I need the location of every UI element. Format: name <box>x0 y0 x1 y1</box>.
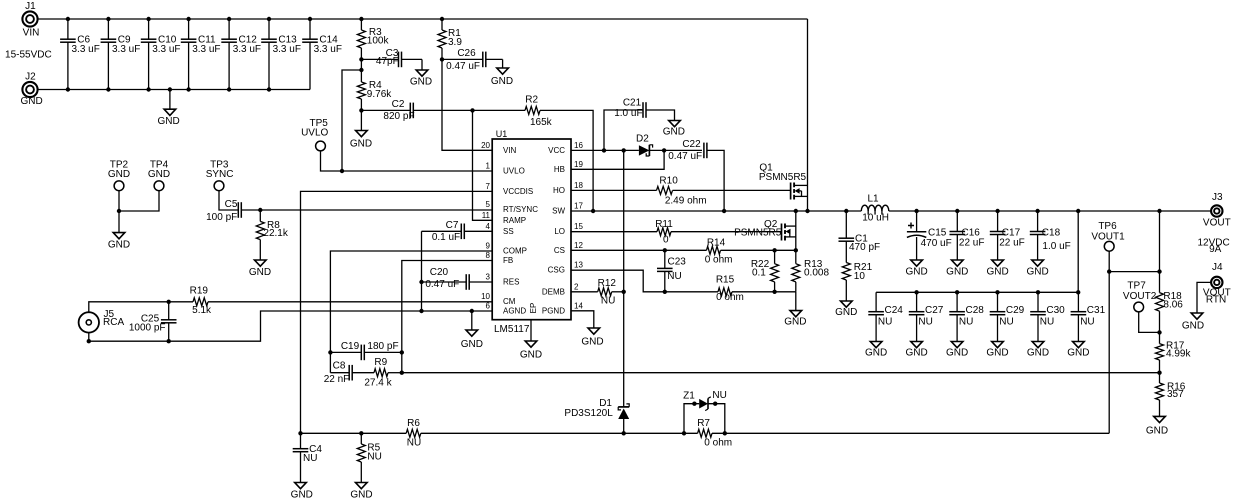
svg-text:GND: GND <box>20 96 42 107</box>
resistor R9 27.4 k <box>364 357 401 388</box>
capacitor C10 3.3 uF <box>141 19 181 90</box>
capacitor C15 470 uF polarized <box>907 211 952 260</box>
svg-text:22 nF: 22 nF <box>324 374 350 385</box>
test point TP5 UVLO <box>301 118 492 173</box>
U1 pin 20 VIN <box>481 141 516 155</box>
svg-text:9.76k: 9.76k <box>367 89 392 100</box>
resistor R17 4.99k <box>1156 332 1192 375</box>
svg-text:7: 7 <box>486 182 491 191</box>
svg-text:GND: GND <box>663 126 685 137</box>
svg-text:19: 19 <box>574 160 583 169</box>
svg-text:CS: CS <box>554 246 565 255</box>
svg-text:NU: NU <box>367 452 381 463</box>
capacitor C22 0.47 uF <box>668 139 724 211</box>
resistor R11 0 <box>571 219 782 246</box>
ground C17 <box>986 260 1008 278</box>
svg-text:470 pF: 470 pF <box>849 242 880 253</box>
zener Z1 NU <box>683 390 727 433</box>
svg-text:GND: GND <box>986 348 1008 359</box>
ground CSG <box>784 292 806 328</box>
svg-text:UVLO: UVLO <box>503 167 525 176</box>
svg-text:9: 9 <box>486 242 491 251</box>
svg-text:J4: J4 <box>1212 262 1223 273</box>
svg-text:HO: HO <box>553 186 565 195</box>
svg-text:GND: GND <box>581 337 603 348</box>
svg-text:Z1: Z1 <box>683 390 695 401</box>
resistor R7 0 ohm <box>697 418 732 448</box>
svg-text:2.49 ohm: 2.49 ohm <box>665 196 707 207</box>
svg-text:J2: J2 <box>25 72 36 83</box>
svg-text:R12: R12 <box>598 278 617 289</box>
resistor R22 0.1 <box>751 250 779 291</box>
diode D1 PD3S120L schottky <box>564 398 629 433</box>
svg-text:8.06: 8.06 <box>1163 300 1183 311</box>
svg-text:357: 357 <box>1167 389 1184 400</box>
capacitor C13 3.3 uF <box>261 19 301 90</box>
ground PGND pin 14 <box>571 311 604 348</box>
capacitor C2 820 pF <box>359 99 414 122</box>
wire HB to pin 19 <box>571 150 664 169</box>
svg-text:D2: D2 <box>636 134 649 145</box>
ground C24 <box>865 342 887 359</box>
ground C3 <box>410 59 432 87</box>
transistor Q1 PSMN5R5 <box>759 163 808 200</box>
capacitor C21 1.0 uF <box>604 98 675 151</box>
U1 pin 16 VCC <box>548 141 583 155</box>
svg-text:470 uF: 470 uF <box>921 238 952 249</box>
wire VCC pin 16 net <box>571 148 639 152</box>
svg-text:3.3 uF: 3.3 uF <box>112 44 140 55</box>
svg-text:20: 20 <box>481 141 490 150</box>
svg-text:0 ohm: 0 ohm <box>716 292 744 303</box>
svg-text:1: 1 <box>486 162 491 171</box>
svg-text:GND: GND <box>461 339 483 350</box>
wire NU cap row rail <box>876 290 1080 294</box>
svg-text:22.1k: 22.1k <box>263 228 288 239</box>
connector J4 VOUT RTN <box>1197 262 1231 313</box>
svg-text:3.9: 3.9 <box>448 37 462 48</box>
svg-text:47pF: 47pF <box>376 56 399 67</box>
ground R8 <box>249 260 271 278</box>
wire GND bottom rail <box>37 89 310 91</box>
svg-text:3.3 uF: 3.3 uF <box>273 44 301 55</box>
svg-text:GND: GND <box>520 350 542 361</box>
svg-text:SW: SW <box>552 207 565 216</box>
svg-text:C5: C5 <box>225 199 238 210</box>
resistor R13 0.008 <box>792 250 830 291</box>
svg-text:LO: LO <box>554 227 565 236</box>
svg-text:C2: C2 <box>392 99 405 110</box>
ground R5 <box>350 483 372 500</box>
svg-text:TP7: TP7 <box>1127 281 1146 292</box>
U1 pin 4 SS <box>486 222 514 236</box>
wire VIN pin net <box>440 57 492 150</box>
svg-text:VCC: VCC <box>548 146 565 155</box>
wire FB pin 8 net <box>400 261 493 375</box>
wire FB feedback line <box>402 372 1160 374</box>
svg-text:5.1k: 5.1k <box>192 305 212 316</box>
ground R16 <box>1146 416 1168 436</box>
ground C31 <box>1067 342 1089 359</box>
svg-text:C27: C27 <box>925 305 944 316</box>
ground J4 <box>1182 313 1204 331</box>
ground C18 <box>1026 260 1048 278</box>
svg-text:3.3 uF: 3.3 uF <box>72 44 100 55</box>
svg-text:R6: R6 <box>407 418 420 429</box>
svg-text:17: 17 <box>574 202 583 211</box>
svg-text:22 uF: 22 uF <box>959 237 985 248</box>
svg-text:GND: GND <box>905 267 927 278</box>
svg-text:9A: 9A <box>1209 244 1222 255</box>
svg-text:GND: GND <box>148 169 170 180</box>
svg-text:NU: NU <box>999 317 1013 328</box>
resistor R10 2.49 ohm <box>571 176 791 207</box>
wire UVLO from divider to pin 1 <box>342 70 361 171</box>
svg-text:12: 12 <box>574 241 583 250</box>
svg-text:NU: NU <box>1040 317 1054 328</box>
U1 pin 14 PGND <box>542 301 584 315</box>
wire TP6 to divider <box>1109 269 1162 273</box>
svg-text:VIN: VIN <box>503 146 517 155</box>
svg-text:C24: C24 <box>885 305 904 316</box>
U1 pin 10 CM <box>481 292 516 306</box>
U1 pin 8 FB <box>486 251 514 265</box>
U1 pin 12 CS <box>554 241 584 255</box>
connector J5 RCA <box>79 309 125 332</box>
svg-text:0.1: 0.1 <box>752 268 766 279</box>
U1 exposed pad EP <box>529 303 538 314</box>
svg-text:NU: NU <box>1080 317 1094 328</box>
svg-text:C15: C15 <box>928 227 947 238</box>
svg-text:C30: C30 <box>1046 305 1065 316</box>
capacitor C7 0.1 uF <box>422 220 493 243</box>
svg-text:C31: C31 <box>1087 305 1106 316</box>
ground R21 <box>835 301 857 318</box>
svg-text:C7: C7 <box>446 220 459 231</box>
inductor L1 10 uH <box>861 193 889 223</box>
wire J5 to R19 CM line <box>89 300 193 313</box>
svg-text:10: 10 <box>481 292 490 301</box>
svg-text:GND: GND <box>350 139 372 150</box>
capacitor C14 3.3 uF <box>302 19 342 90</box>
label 15-55VDC <box>5 50 52 61</box>
capacitor C29 NU <box>990 292 1025 341</box>
svg-text:NU: NU <box>303 453 317 464</box>
svg-text:820 pF: 820 pF <box>383 111 414 122</box>
test point TP4 GND <box>119 160 170 211</box>
svg-text:J1: J1 <box>25 1 36 12</box>
svg-text:NU: NU <box>878 317 892 328</box>
svg-text:C20: C20 <box>430 267 449 278</box>
capacitor C20 0.47 uF <box>422 267 493 290</box>
svg-text:0 ohm: 0 ohm <box>705 255 733 266</box>
connector J3 VOUT <box>1203 192 1231 228</box>
svg-text:GND: GND <box>1067 348 1089 359</box>
svg-text:DEMB: DEMB <box>542 287 565 296</box>
svg-text:VOUT2: VOUT2 <box>1123 291 1157 302</box>
svg-text:4.99k: 4.99k <box>1166 349 1191 360</box>
svg-text:C26: C26 <box>457 48 476 59</box>
svg-text:C18: C18 <box>1042 227 1061 238</box>
svg-text:UVLO: UVLO <box>301 127 328 138</box>
svg-text:0.1 uF: 0.1 uF <box>432 232 460 243</box>
svg-text:RES: RES <box>503 278 519 287</box>
svg-text:GND: GND <box>410 77 432 88</box>
svg-text:R19: R19 <box>190 286 209 297</box>
U1 pin 15 LO <box>554 222 583 236</box>
U1 pin 18 HO <box>553 181 583 195</box>
svg-text:180 pF: 180 pF <box>367 341 398 352</box>
junction dots input rails <box>66 17 444 92</box>
wire AGND tie vertical <box>419 231 423 313</box>
svg-text:GND: GND <box>350 490 372 500</box>
svg-text:3.3 uF: 3.3 uF <box>192 44 220 55</box>
svg-text:RTN: RTN <box>1206 295 1226 306</box>
svg-text:GND: GND <box>1182 320 1204 331</box>
svg-text:3.3 uF: 3.3 uF <box>152 44 180 55</box>
svg-text:0: 0 <box>663 235 669 246</box>
capacitor C18 1.0 uF <box>1030 211 1071 260</box>
transistor Q2 PSMN5R5 <box>734 219 796 241</box>
capacitor C17 22 uF <box>990 211 1025 260</box>
capacitor C5 100 pF <box>206 199 492 223</box>
capacitor C30 NU <box>1030 292 1065 341</box>
U1 pin 1 UVLO <box>486 162 525 176</box>
ground C30 <box>1027 342 1049 359</box>
resistor R12 NU <box>571 278 624 307</box>
svg-text:EP: EP <box>529 303 538 314</box>
svg-text:0 ohm: 0 ohm <box>704 437 732 448</box>
svg-text:LM5117: LM5117 <box>494 324 530 335</box>
resistor R2 165k <box>525 95 553 129</box>
U1 pin 9 COMP <box>486 242 527 256</box>
svg-text:6: 6 <box>486 302 491 311</box>
wire HB node after D2 <box>649 148 702 152</box>
svg-text:NU: NU <box>667 271 681 282</box>
svg-text:NU: NU <box>959 317 973 328</box>
svg-text:L1: L1 <box>867 193 879 204</box>
test point TP7 VOUT2 <box>1123 281 1162 335</box>
capacitor C23 NU <box>657 250 686 291</box>
svg-text:GND: GND <box>835 307 857 318</box>
svg-text:TP6: TP6 <box>1098 221 1117 232</box>
op-amp U1 LM5117 controller IC body <box>492 129 571 335</box>
ground EP pad <box>520 320 542 361</box>
U1 pin 6 AGND <box>486 302 527 316</box>
svg-text:GND: GND <box>946 348 968 359</box>
U1 pin 11 RAMP <box>482 211 526 225</box>
svg-text:R14: R14 <box>707 238 726 249</box>
capacitor C16 22 uF <box>950 211 985 260</box>
U1 pin 2 DEMB <box>542 282 579 296</box>
resistor R8 22.1k <box>256 210 289 260</box>
resistor R14 0 ohm <box>705 238 733 266</box>
capacitor C11 3.3 uF <box>181 19 221 90</box>
resistor R16 357 <box>1156 373 1186 417</box>
svg-text:VOUT: VOUT <box>1203 217 1231 228</box>
svg-text:PSMN5R5: PSMN5R5 <box>759 172 807 183</box>
svg-text:4: 4 <box>486 222 491 231</box>
wire RAMP to pin 11 <box>473 110 493 220</box>
resistor R18 8.06 <box>1156 211 1184 332</box>
U1 pin 5 RT/SYNC <box>486 200 539 214</box>
svg-text:J3: J3 <box>1212 192 1223 203</box>
ground C4 <box>291 483 313 500</box>
capacitor C19 180 pF <box>330 341 401 360</box>
svg-text:C22: C22 <box>682 139 701 150</box>
wire SW node rail <box>571 209 861 213</box>
U1 pin 17 SW <box>552 202 583 216</box>
svg-text:16: 16 <box>574 141 583 150</box>
svg-text:GND: GND <box>905 348 927 359</box>
U1 pin 3 RES <box>486 273 520 287</box>
svg-text:R10: R10 <box>659 176 678 187</box>
wire VOUT to NU row <box>1077 211 1079 292</box>
capacitor C12 3.3 uF <box>221 19 261 90</box>
svg-text:GND: GND <box>1026 267 1048 278</box>
svg-text:14: 14 <box>574 301 583 310</box>
ground TP2/TP4 <box>108 209 130 251</box>
svg-text:R11: R11 <box>655 219 673 230</box>
svg-text:18: 18 <box>574 181 583 190</box>
capacitor C25 1000 pF <box>129 302 177 341</box>
svg-text:27.4 k: 27.4 k <box>364 377 392 388</box>
svg-text:CM: CM <box>503 297 516 306</box>
svg-text:2: 2 <box>574 282 579 291</box>
svg-text:13: 13 <box>574 261 583 270</box>
svg-text:R9: R9 <box>374 357 387 368</box>
svg-text:0.008: 0.008 <box>804 268 829 279</box>
svg-text:PSMN5R5: PSMN5R5 <box>734 228 782 239</box>
svg-text:GND: GND <box>249 267 271 278</box>
svg-text:GND: GND <box>784 317 806 328</box>
capacitor C4 NU <box>293 433 323 482</box>
ground R4 <box>350 110 372 149</box>
svg-text:NU: NU <box>712 390 726 401</box>
svg-text:3.3 uF: 3.3 uF <box>314 44 342 55</box>
svg-text:1000 pF: 1000 pF <box>129 322 166 333</box>
svg-text:VIN: VIN <box>23 28 40 39</box>
svg-text:3.3 uF: 3.3 uF <box>233 44 261 55</box>
wire VIN top rail <box>37 18 808 20</box>
resistor R15 0 ohm <box>716 275 744 303</box>
svg-text:GND: GND <box>986 267 1008 278</box>
resistor R4 9.76k <box>357 70 392 110</box>
svg-text:R2: R2 <box>525 95 538 106</box>
ground C26 <box>491 59 513 86</box>
ground C21 <box>663 121 685 138</box>
svg-text:GND: GND <box>946 267 968 278</box>
capacitor C26 0.47 uF <box>442 48 503 72</box>
svg-text:15-55VDC: 15-55VDC <box>5 50 52 61</box>
capacitor C6 3.3 uF <box>60 19 100 90</box>
svg-text:VCCDIS: VCCDIS <box>503 187 533 196</box>
svg-text:NU: NU <box>918 317 932 328</box>
svg-text:RAMP: RAMP <box>503 216 526 225</box>
capacitor C27 NU <box>909 292 944 341</box>
svg-text:RT/SYNC: RT/SYNC <box>503 205 538 214</box>
svg-text:GND: GND <box>1027 348 1049 359</box>
svg-text:SS: SS <box>503 227 514 236</box>
wire bottom VCCX rail <box>298 431 1109 435</box>
U1 pin 7 VCCDIS <box>486 182 534 196</box>
svg-text:PGND: PGND <box>542 306 565 315</box>
svg-text:1.0 uF: 1.0 uF <box>614 108 642 119</box>
capacitor C9 3.3 uF <box>101 19 141 90</box>
wire VOUT rail <box>889 209 1212 213</box>
svg-text:C19: C19 <box>341 341 360 352</box>
svg-text:NU: NU <box>601 296 615 307</box>
diode D2 schottky <box>636 134 653 156</box>
svg-text:R15: R15 <box>716 275 735 286</box>
svg-text:PD3S120L: PD3S120L <box>564 408 613 419</box>
ground AGND pin 6 <box>461 311 483 350</box>
svg-text:11: 11 <box>482 211 491 220</box>
svg-text:0.47 uF: 0.47 uF <box>668 151 702 162</box>
label 12VDC 9A <box>1197 237 1229 255</box>
svg-text:NU: NU <box>407 438 421 449</box>
svg-text:FB: FB <box>503 256 513 265</box>
U1 pin 19 HB <box>554 160 584 174</box>
svg-text:HB: HB <box>554 165 565 174</box>
svg-text:AGND: AGND <box>503 307 526 316</box>
wire VCCDIS pin 7 net <box>301 191 493 433</box>
resistor R21 10 <box>842 262 872 301</box>
svg-text:GND: GND <box>865 348 887 359</box>
svg-text:C29: C29 <box>1006 305 1025 316</box>
test point TP3 SYNC <box>206 160 238 210</box>
svg-text:1.0 uF: 1.0 uF <box>1042 241 1070 252</box>
svg-text:22 uF: 22 uF <box>999 237 1025 248</box>
ground C15 <box>905 260 927 278</box>
wire CS pin 12 net <box>571 248 798 252</box>
svg-text:GND: GND <box>1146 425 1168 436</box>
svg-text:GND: GND <box>157 116 179 127</box>
svg-text:8: 8 <box>486 251 491 260</box>
svg-text:10 uH: 10 uH <box>862 213 889 224</box>
test point TP6 VOUT1 <box>1091 221 1125 433</box>
resistor R19 5.1k <box>190 286 493 317</box>
svg-text:C23: C23 <box>668 256 687 267</box>
wire RAMP net <box>414 108 594 211</box>
resistor R5 NU <box>357 433 382 482</box>
svg-text:GND: GND <box>108 169 130 180</box>
svg-text:GND: GND <box>108 239 130 250</box>
svg-text:U1: U1 <box>496 129 508 139</box>
ground C29 <box>986 342 1008 359</box>
wire Q2 drain-source vertical <box>795 211 797 250</box>
capacitor C31 NU <box>1071 292 1106 341</box>
ground C28 <box>946 342 968 359</box>
wire J5 shield to AGND <box>87 309 493 344</box>
svg-text:VOUT1: VOUT1 <box>1091 231 1125 242</box>
svg-text:3: 3 <box>486 273 491 282</box>
U1 pin 13 CSG <box>548 261 584 275</box>
svg-text:100 pF: 100 pF <box>206 212 237 223</box>
svg-text:RCA: RCA <box>103 317 124 328</box>
svg-text:10: 10 <box>854 271 866 282</box>
svg-text:100k: 100k <box>367 36 390 47</box>
svg-text:GND: GND <box>291 490 313 500</box>
svg-text:R7: R7 <box>697 418 710 429</box>
connector J1 VIN <box>22 1 39 39</box>
capacitor C24 NU <box>868 292 903 341</box>
wire CSG pin 13 net <box>571 270 796 294</box>
ground C16 <box>946 260 968 278</box>
resistor R6 NU <box>406 418 421 449</box>
capacitor C1 470 pF <box>839 211 881 263</box>
connector J2 GND <box>20 72 42 108</box>
